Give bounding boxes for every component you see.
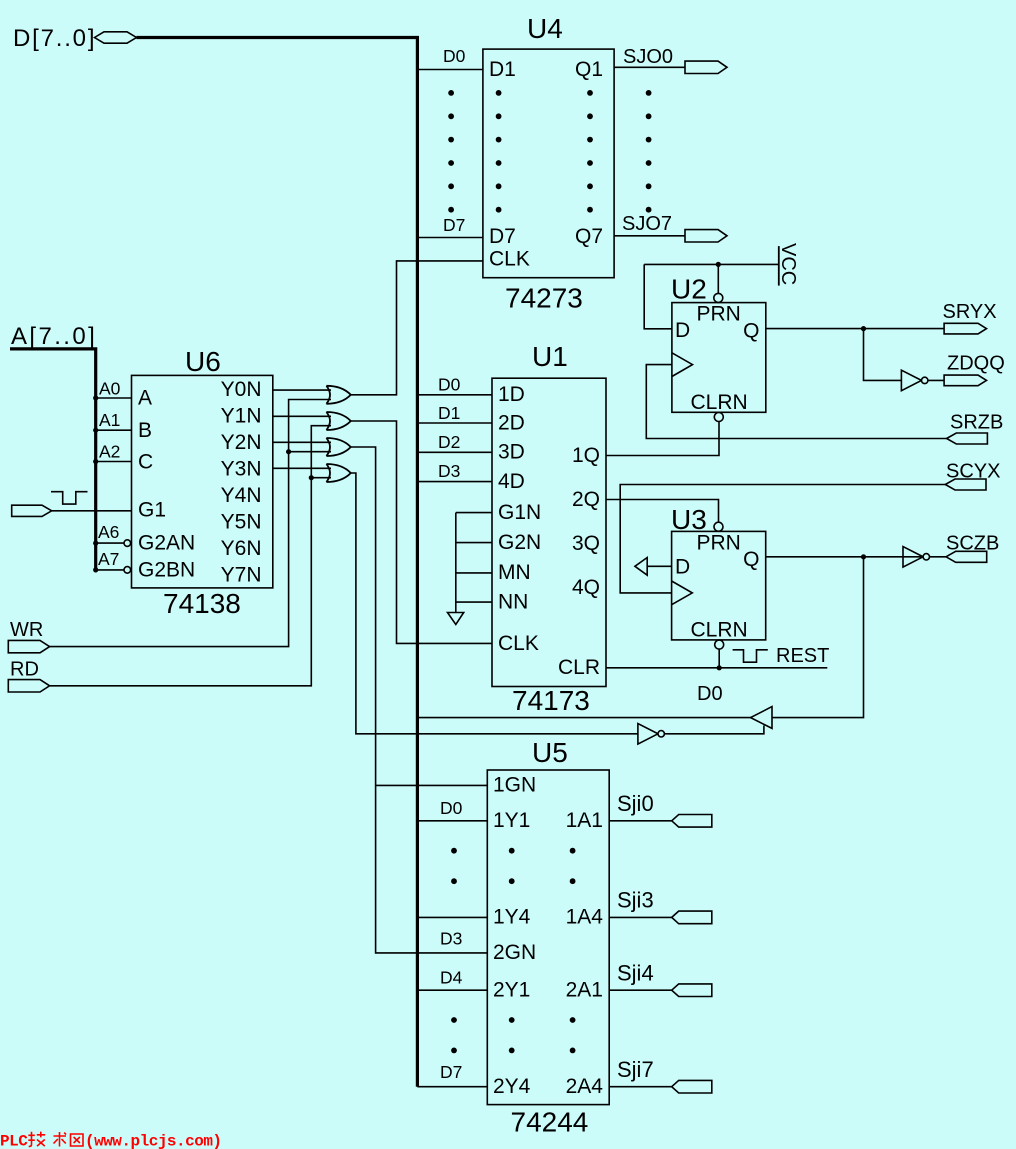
- Sji4 connector: [672, 984, 712, 997]
- wire gate3 lower input stub: [289, 451, 331, 453]
- inverter (SCZB): [903, 547, 930, 568]
- svg-text:Q: Q: [743, 548, 759, 571]
- node REST: [776, 645, 829, 667]
- wire U5 2Y1/D4 tap: [417, 989, 487, 991]
- wire 2A4 to Sji7: [609, 1086, 672, 1088]
- svg-text:RD: RD: [10, 659, 39, 681]
- wire WR to gate1/gate3 lower inputs: [50, 400, 331, 647]
- wire Y0N to OR gate 1: [273, 389, 331, 391]
- node Sji0: [617, 791, 654, 816]
- wire U1 2Q to U3 PRN: [606, 500, 719, 523]
- G1 input connector (unlabeled): [12, 505, 52, 516]
- svg-text:WR: WR: [10, 619, 43, 641]
- ellipsis dots U4 outside-right: [646, 90, 652, 213]
- wire U2 Q to SRYX: [766, 328, 944, 330]
- OR gate 2 (Y1N+RD): [326, 412, 350, 430]
- direction arrow on D0 feedback: [751, 707, 772, 729]
- svg-text:U4: U4: [527, 13, 563, 44]
- wire G1 input: [52, 510, 132, 512]
- ellipsis dots U5 inside-left: [509, 848, 515, 1054]
- svg-text:G2AN: G2AN: [138, 532, 195, 555]
- wire U4 D0 tap: [417, 69, 483, 71]
- node SCZB: [946, 533, 999, 555]
- svg-text:74244: 74244: [511, 1107, 589, 1138]
- wire gate4 lower input stub: [311, 477, 331, 479]
- wire U1 CLR / REST line: [606, 667, 827, 669]
- svg-text:Y3N: Y3N: [221, 457, 262, 480]
- svg-text:CLK: CLK: [498, 632, 539, 655]
- OR gate 4 (Y3N+RD): [326, 464, 350, 482]
- svg-text:G2BN: G2BN: [138, 558, 195, 581]
- wire 1A1 to Sji0: [609, 820, 672, 822]
- ellipsis dots U5 inside-right: [570, 848, 576, 1054]
- node D0 (U4): [443, 46, 466, 66]
- svg-text:A0: A0: [99, 379, 121, 399]
- svg-text:SJO0: SJO0: [623, 46, 673, 68]
- node A2: [93, 442, 120, 464]
- U3 CLRN bubble: [715, 640, 724, 649]
- wire gate1 output to U4 CLK: [351, 261, 483, 395]
- wire A0 tap: [96, 397, 132, 399]
- svg-text:Sji4: Sji4: [617, 961, 654, 986]
- svg-text:(www.plcjs.com): (www.plcjs.com): [85, 1133, 222, 1149]
- node D1 (U1): [438, 403, 460, 423]
- ellipsis dots U5 outside-left: [451, 848, 457, 1054]
- inverter (feedback): [638, 724, 665, 745]
- node SCYX: [946, 461, 1000, 483]
- wire Q1 to SJO0: [614, 66, 685, 68]
- svg-text:MN: MN: [498, 561, 531, 584]
- wire Q7 to SJO7: [614, 235, 685, 237]
- SCYX connector: [945, 479, 986, 490]
- svg-text:U1: U1: [532, 341, 568, 372]
- pulse waveform symbol REST: [733, 650, 768, 662]
- ellipsis dots U4 inside-right: [587, 90, 593, 213]
- wire gate3 output to U5 1GN/2GN: [351, 447, 488, 953]
- svg-text:D0: D0: [697, 683, 723, 705]
- wire U1 2D tap: [417, 422, 492, 424]
- svg-text:3D: 3D: [498, 441, 525, 464]
- svg-text:Q: Q: [743, 320, 759, 343]
- wire A address bus (thick): [10, 349, 96, 570]
- wire A1 tap: [96, 429, 132, 431]
- wire VCC to U2 PRN: [717, 264, 719, 293]
- power VCC symbol: [777, 243, 799, 286]
- svg-text:PLC: PLC: [0, 1133, 28, 1149]
- wire 2A1 to Sji4: [609, 989, 672, 991]
- node D0 (feedback): [697, 683, 723, 705]
- node D0 (U1): [438, 375, 461, 395]
- WR input connector: [8, 640, 49, 652]
- svg-text:2A1: 2A1: [566, 979, 603, 1002]
- node RD: [10, 659, 39, 681]
- svg-text:2GN: 2GN: [493, 941, 536, 964]
- svg-text:B: B: [138, 419, 152, 442]
- svg-text:D[7..0]: D[7..0]: [13, 25, 96, 52]
- svg-text:Sji0: Sji0: [617, 791, 654, 816]
- svg-text:U6: U6: [185, 346, 221, 377]
- svg-text:D0: D0: [443, 46, 466, 66]
- svg-text:SJO7: SJO7: [622, 213, 672, 235]
- node D4 (U5): [440, 968, 463, 988]
- node SRZB: [950, 412, 1003, 434]
- svg-text:1A1: 1A1: [566, 809, 603, 832]
- svg-text:A: A: [138, 387, 152, 410]
- svg-text:G1: G1: [138, 499, 166, 522]
- svg-text:CLK: CLK: [489, 248, 530, 271]
- node SJO0: [623, 46, 673, 68]
- wire U3 Q to SCZB: [766, 556, 946, 558]
- IC U3 D flip-flop body: [672, 531, 766, 640]
- OR gate 1 (Y0N+WR): [326, 386, 350, 404]
- wire A2 tap: [96, 461, 132, 463]
- svg-text:4Q: 4Q: [572, 576, 600, 599]
- node D3 (U5): [440, 929, 462, 949]
- svg-text:CLRN: CLRN: [691, 391, 748, 414]
- svg-text:G1N: G1N: [498, 501, 541, 524]
- pulse waveform symbol at G1: [51, 492, 88, 504]
- svg-text:D1: D1: [438, 403, 460, 423]
- node Sji4: [617, 961, 654, 986]
- svg-text:C: C: [138, 450, 153, 473]
- node ZDQQ: [947, 353, 1005, 375]
- svg-text:2Y1: 2Y1: [493, 979, 530, 1002]
- svg-text:3Q: 3Q: [572, 532, 600, 555]
- svg-text:1D: 1D: [498, 383, 525, 406]
- wire U1 3D tap: [417, 451, 492, 453]
- svg-text:A7: A7: [98, 549, 119, 569]
- pin bubble G2BN: [124, 567, 131, 574]
- wire G1N stub: [456, 512, 492, 514]
- svg-text:D7: D7: [440, 1062, 462, 1082]
- wire Y3N to OR gate 4: [273, 467, 331, 469]
- U2 PRN bubble: [714, 293, 723, 302]
- VCC rail wire: [644, 263, 779, 265]
- svg-text:A[7..0]: A[7..0]: [11, 323, 97, 350]
- ground arrow: [448, 613, 464, 625]
- svg-text:1Y1: 1Y1: [493, 809, 530, 832]
- wire gate2 output to U1 CLK: [351, 421, 492, 643]
- svg-text:D0: D0: [438, 375, 461, 395]
- pin bubble G2AN: [124, 540, 131, 547]
- wire U1 4D tap: [417, 481, 492, 483]
- node A0: [93, 379, 121, 401]
- wire D0 feedback from U3 Q to D bus: [417, 557, 863, 718]
- svg-text:Y0N: Y0N: [221, 378, 262, 401]
- svg-text:2Q: 2Q: [572, 488, 600, 511]
- SJO0 output connector: [685, 61, 727, 73]
- svg-text:Q7: Q7: [575, 225, 603, 248]
- wire NN stub: [456, 601, 492, 603]
- svg-text:1Y4: 1Y4: [493, 906, 531, 929]
- ellipsis dots U4 inside-left: [496, 90, 502, 213]
- SRYX output connector: [944, 323, 986, 334]
- D[7..0] bus entry connector: [95, 32, 137, 43]
- wire SRZB to U2 clock: [646, 365, 946, 439]
- U3 PRN bubble: [714, 522, 723, 531]
- wire Y1N to OR gate 2: [273, 415, 331, 417]
- junction VCC/PRN: [716, 262, 721, 267]
- wire U4 D7 tap: [417, 237, 483, 239]
- inverter (ZDQQ): [901, 370, 928, 391]
- svg-text:PRN: PRN: [697, 303, 741, 326]
- SCZB connector: [946, 551, 987, 562]
- Sji3 connector: [672, 911, 712, 924]
- wire U5 1Y4/D3 tap: [417, 916, 487, 918]
- node Sji3: [617, 888, 654, 913]
- svg-text:U5: U5: [532, 737, 568, 768]
- svg-text:A2: A2: [99, 442, 120, 462]
- U3 clock triangle: [672, 581, 693, 605]
- node D7 (U5): [440, 1062, 462, 1082]
- footer watermark PLC red text: [0, 1132, 222, 1149]
- svg-text:2A4: 2A4: [566, 1075, 604, 1098]
- svg-text:A6: A6: [98, 522, 119, 542]
- svg-text:74173: 74173: [512, 685, 590, 716]
- node Sji7: [617, 1057, 654, 1082]
- ZDQQ output connector: [944, 375, 986, 386]
- U3 D input stub with arrow: [635, 558, 672, 576]
- node A7: [93, 549, 119, 573]
- wire inverter to ZDQQ: [928, 379, 944, 381]
- svg-text:NN: NN: [498, 591, 528, 614]
- svg-text:74273: 74273: [505, 283, 583, 314]
- svg-text:2Y4: 2Y4: [493, 1075, 531, 1098]
- IC U4 74273 body: [483, 49, 614, 278]
- IC U5 74244 body: [487, 770, 609, 1105]
- node D[7..0] bus label: [13, 25, 96, 52]
- wire A6 tap: [96, 542, 124, 544]
- svg-text:4D: 4D: [498, 470, 525, 493]
- node D7 (U4): [443, 215, 465, 235]
- svg-text:2D: 2D: [498, 412, 525, 435]
- svg-text:Y6N: Y6N: [221, 537, 262, 560]
- svg-text:Q1: Q1: [575, 58, 603, 81]
- Sji0 connector: [672, 815, 712, 828]
- ellipsis dots U4 outside-left: [448, 90, 454, 213]
- junction WR/gate3: [286, 449, 291, 454]
- node A1: [93, 410, 120, 433]
- junction RD/gate4: [309, 475, 314, 480]
- svg-text:D1: D1: [489, 58, 516, 81]
- IC U2 D flip-flop body: [672, 303, 766, 413]
- wire A7 tap: [96, 569, 124, 571]
- wire U1 1Q to U2 CLRN: [606, 422, 719, 456]
- node D2 (U1): [438, 432, 460, 452]
- wire SCYX to U3 clock: [620, 485, 945, 593]
- wire gate4 output to inverter: [351, 473, 638, 734]
- svg-text:U3: U3: [671, 504, 707, 535]
- SRZB connector: [947, 433, 988, 444]
- wire U5 2Y4/D7 tap: [417, 1086, 487, 1088]
- svg-text:Sji7: Sji7: [617, 1057, 654, 1082]
- svg-text:D3: D3: [440, 929, 462, 949]
- svg-text:U2: U2: [671, 274, 707, 305]
- wire gate3 branch to U5 1GN: [376, 784, 488, 786]
- U2 clock triangle: [672, 353, 693, 377]
- svg-text:D3: D3: [438, 461, 460, 481]
- svg-text:CLR: CLR: [558, 656, 600, 679]
- svg-text:D2: D2: [438, 432, 460, 452]
- node WR: [10, 619, 43, 641]
- wire 1A4 to Sji3: [609, 916, 672, 918]
- svg-text:PRN: PRN: [697, 532, 741, 555]
- wire MN stub: [456, 572, 492, 574]
- junction CLRN/REST: [717, 665, 722, 670]
- wire G2N stub: [456, 542, 492, 544]
- wire D data bus (thick): [137, 38, 418, 1087]
- svg-text:1GN: 1GN: [493, 774, 536, 797]
- junction Q/feedback: [861, 554, 866, 559]
- svg-text:Y5N: Y5N: [221, 511, 262, 534]
- node A[7..0] bus label: [11, 323, 97, 350]
- svg-text:D: D: [675, 556, 690, 579]
- wire RD to gate2/gate4 lower inputs: [50, 426, 331, 686]
- svg-text:74138: 74138: [163, 588, 241, 619]
- svg-text:1Q: 1Q: [572, 444, 600, 467]
- wire U5 1Y1/D0 tap: [417, 820, 487, 822]
- wire U3 CLRN to REST line: [718, 649, 720, 668]
- svg-text:A1: A1: [99, 410, 120, 430]
- wire U1 1D tap: [417, 394, 492, 396]
- svg-text:VCC: VCC: [777, 243, 799, 285]
- svg-text:D7: D7: [489, 225, 516, 248]
- svg-text:Y7N: Y7N: [221, 564, 262, 587]
- svg-text:ZDQQ: ZDQQ: [947, 353, 1005, 375]
- svg-text:1A4: 1A4: [566, 906, 604, 929]
- junction Q/ZDQQ branch: [861, 326, 866, 331]
- svg-text:Y2N: Y2N: [221, 431, 262, 454]
- svg-text:D: D: [675, 319, 690, 342]
- wire G bus vertical: [455, 513, 457, 613]
- wire feedback inverter output up to D0 line: [664, 726, 764, 734]
- RD input connector: [8, 680, 49, 692]
- node A6: [93, 522, 119, 546]
- svg-text:Y1N: Y1N: [221, 404, 262, 427]
- IC U6 74138 decoder body: [132, 375, 273, 588]
- svg-text:Y4N: Y4N: [221, 484, 262, 507]
- node SJO7: [622, 213, 672, 235]
- node D0 (U5): [440, 798, 463, 818]
- U2 CLRN bubble: [714, 413, 723, 422]
- svg-text:D0: D0: [440, 798, 463, 818]
- svg-text:Sji3: Sji3: [617, 888, 654, 913]
- wire Q branch down to ZDQQ inverter: [864, 329, 902, 381]
- svg-text:D7: D7: [443, 215, 465, 235]
- Sji7 connector: [672, 1080, 712, 1093]
- svg-text:SRYX: SRYX: [943, 301, 997, 323]
- SJO7 output connector: [685, 230, 727, 242]
- svg-text:REST: REST: [776, 645, 829, 667]
- svg-text:D4: D4: [440, 968, 463, 988]
- node SRYX: [943, 301, 997, 323]
- wire VCC to U2 D: [644, 264, 672, 328]
- IC U1 74173 body: [492, 378, 606, 686]
- svg-text:CLRN: CLRN: [691, 618, 748, 641]
- wire Y2N to OR gate 3: [273, 441, 331, 443]
- svg-text:G2N: G2N: [498, 531, 541, 554]
- svg-text:SRZB: SRZB: [950, 412, 1003, 434]
- OR gate 3 (Y2N+WR): [326, 438, 350, 456]
- node D3 (U1): [438, 461, 460, 481]
